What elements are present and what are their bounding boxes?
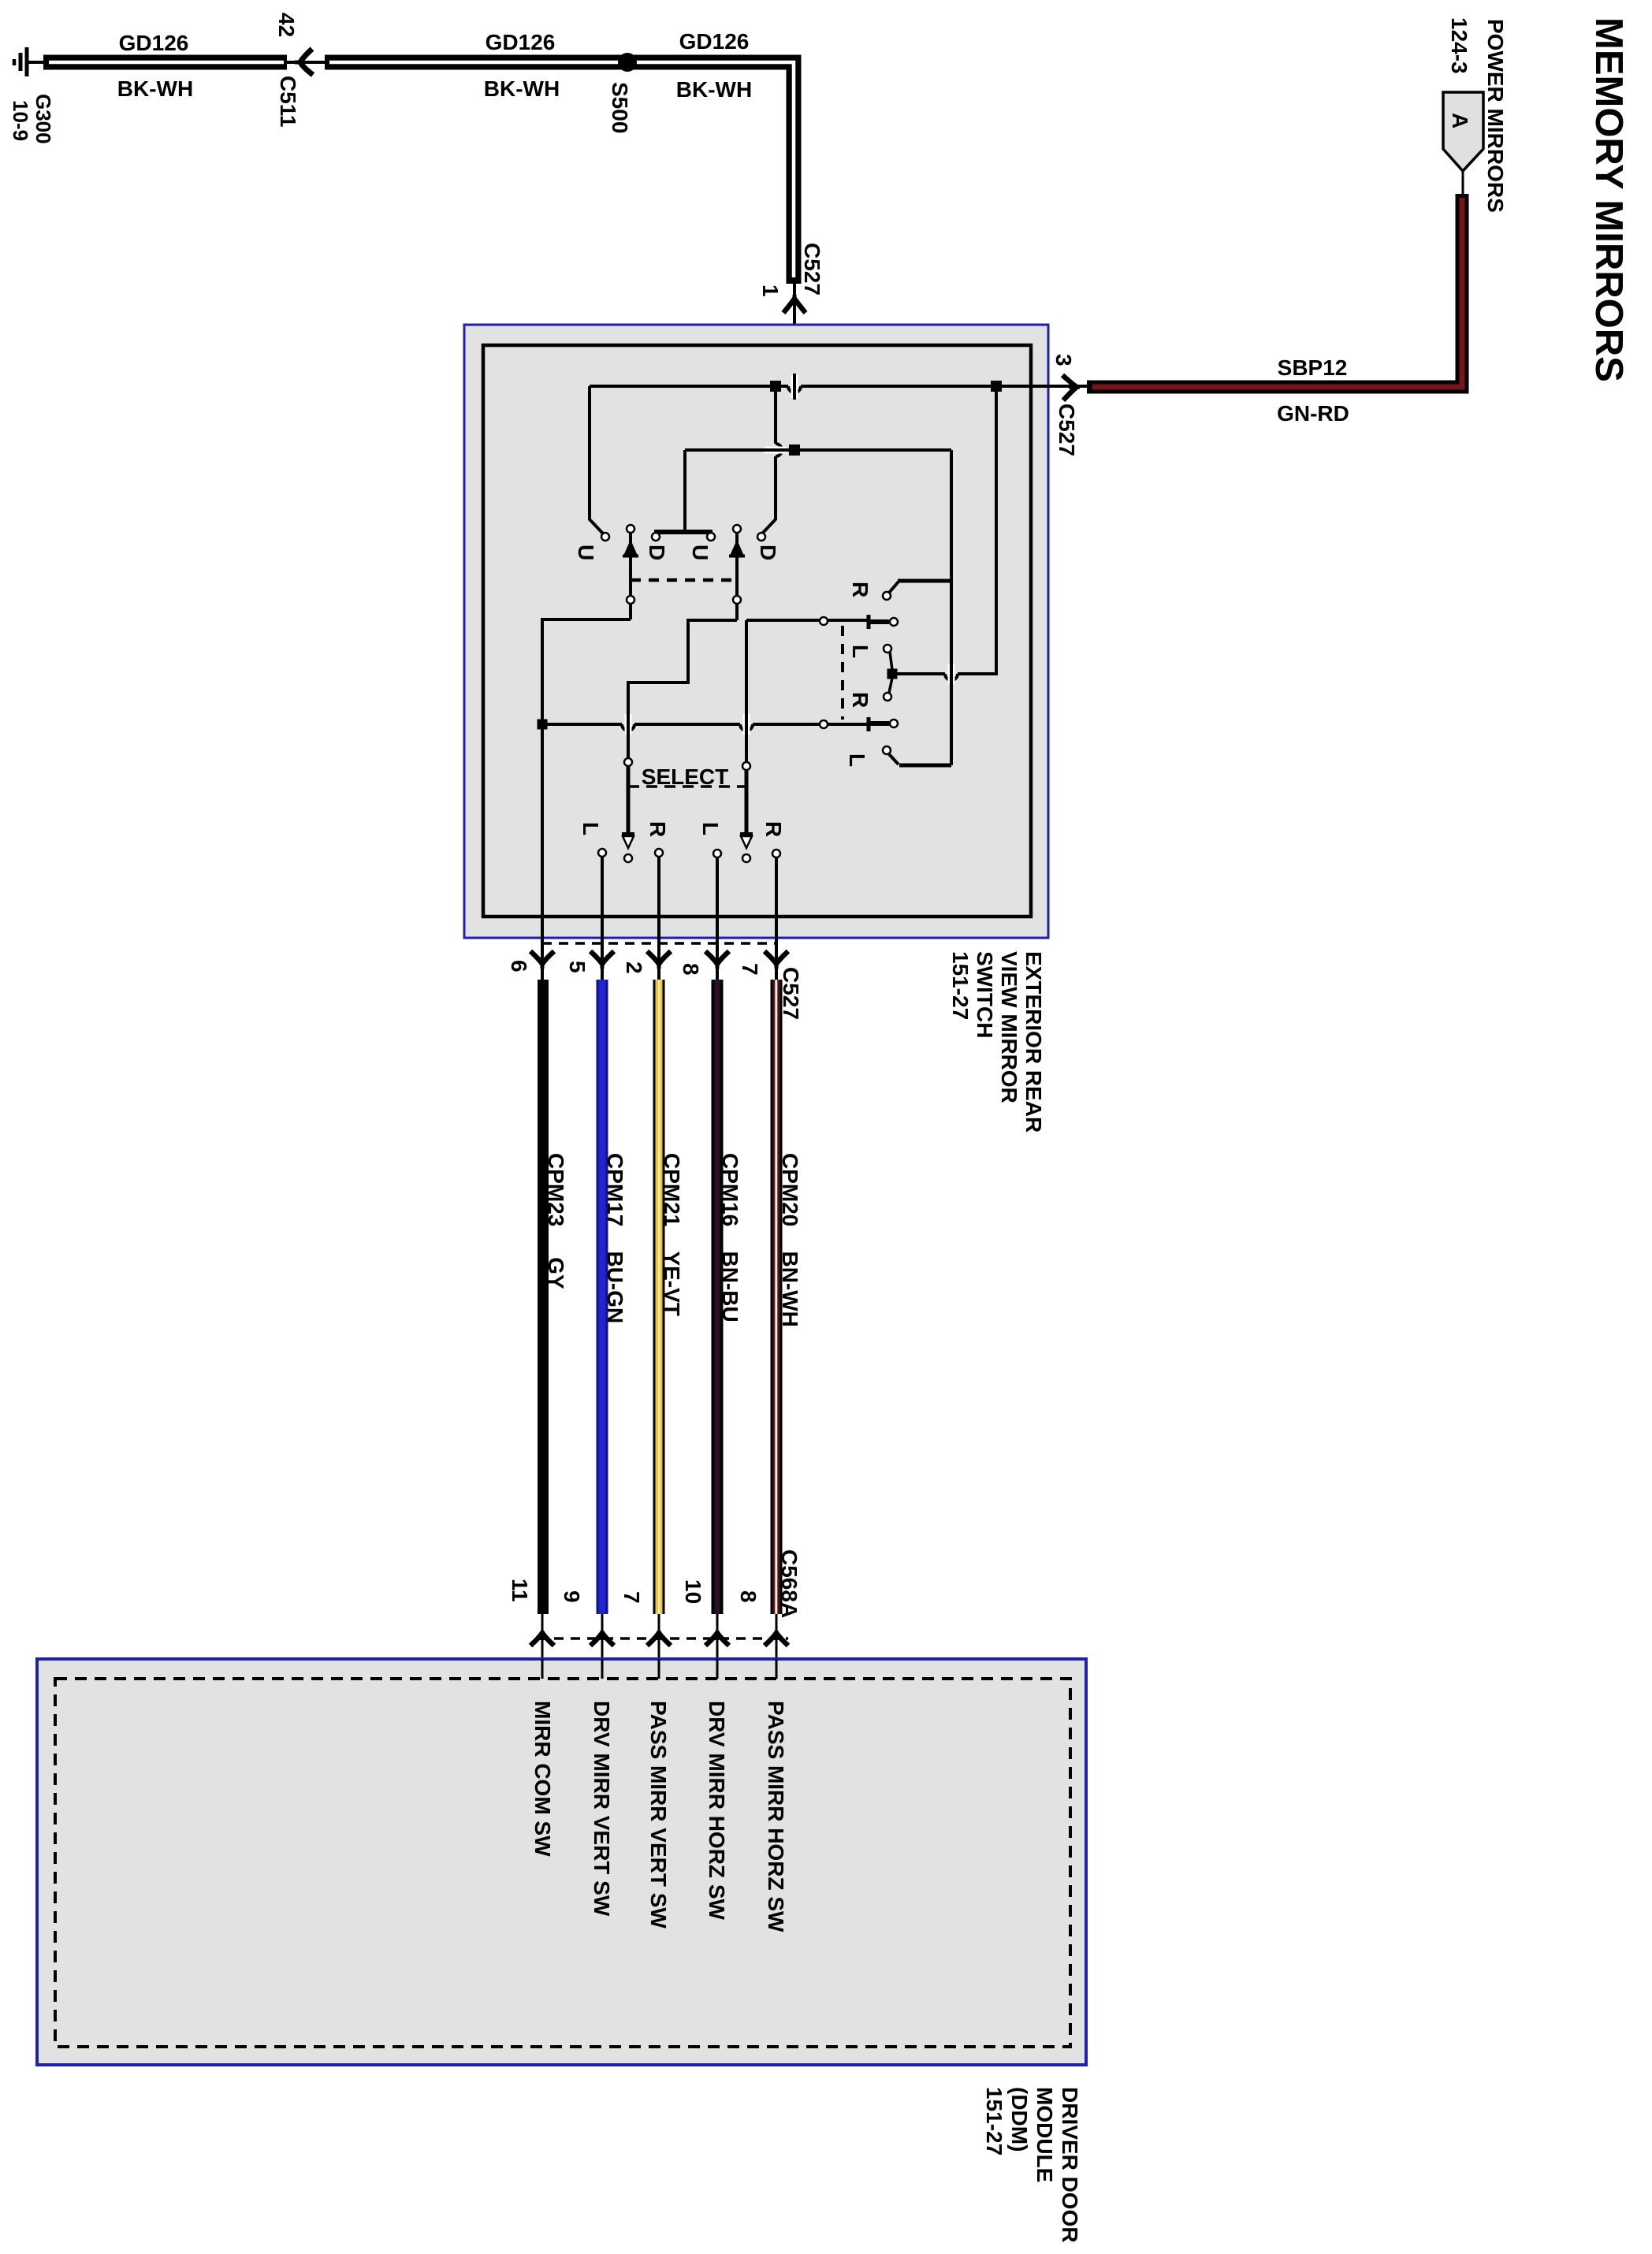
ddm pin 11 arrow	[530, 1631, 554, 1646]
wire CPM17 BU-GN blue	[597, 980, 608, 1614]
svg-text:EXTERIOR REAR: EXTERIOR REAR	[1021, 951, 1046, 1133]
svg-text:C511: C511	[276, 76, 300, 127]
svg-text:151-27: 151-27	[982, 2087, 1006, 2155]
node junction line1-blade2	[770, 381, 781, 392]
svg-text:DRV MIRR HORZ SW: DRV MIRR HORZ SW	[705, 1701, 729, 1920]
svg-text:L: L	[579, 822, 603, 835]
ddm inner dashed border	[55, 1679, 1070, 2047]
svg-text:151-27: 151-27	[948, 951, 973, 1020]
svg-text:DRV MIRR VERT SW: DRV MIRR VERT SW	[590, 1701, 614, 1917]
contact bar sw1	[652, 532, 715, 541]
svg-text:L: L	[845, 753, 869, 767]
ddm pin 7 arrow	[647, 1631, 671, 1646]
svg-text:R: R	[646, 821, 670, 837]
svg-text:GD126: GD126	[486, 30, 556, 54]
svg-text:PASS MIRR HORZ SW: PASS MIRR HORZ SW	[764, 1701, 788, 1932]
ddm pin 9 arrow	[590, 1631, 614, 1646]
svg-text:U: U	[688, 545, 713, 560]
select pole1 contact L	[598, 849, 606, 857]
node junction line1-right column	[991, 381, 1002, 392]
pin 6 arrow	[530, 951, 554, 969]
label EXTERIOR REAR VIEW MIRROR SWITCH 151-27	[948, 951, 1046, 1133]
svg-text:C527: C527	[1055, 404, 1079, 456]
pin 8 arrow	[705, 951, 729, 969]
select pole2 contact R	[772, 850, 780, 857]
svg-text:U: U	[574, 545, 598, 560]
svg-text:VIEW MIRROR: VIEW MIRROR	[997, 951, 1021, 1103]
contact U driver-vert	[601, 533, 609, 541]
svg-text:D: D	[756, 545, 780, 560]
blade L bottom right	[883, 746, 951, 765]
svg-text:DRIVER DOOR: DRIVER DOOR	[1058, 2087, 1082, 2243]
wire select2 R to pin7	[775, 857, 778, 980]
select pole2 contact L	[713, 850, 721, 857]
svg-text:10-9: 10-9	[9, 100, 32, 141]
wire GD126 BK-WH segment 2+3 with corner down to pin 1	[325, 62, 794, 284]
svg-text:CPM16 BN-BU: CPM16 BN-BU	[718, 1153, 742, 1322]
svg-text:8: 8	[679, 963, 703, 976]
svg-text:MEMORY MIRRORS: MEMORY MIRRORS	[1587, 17, 1630, 382]
mechanical link dashed RL	[841, 626, 844, 720]
wire bar sw1 feed from line2	[683, 450, 686, 530]
svg-text:3: 3	[1051, 354, 1076, 366]
svg-text:A: A	[1448, 113, 1472, 128]
svg-text:6: 6	[507, 960, 531, 973]
svg-text:MIRR COM SW: MIRR COM SW	[530, 1701, 555, 1857]
svg-text:BK-WH: BK-WH	[484, 76, 560, 101]
select pole1 contact R	[655, 849, 663, 857]
svg-text:L: L	[848, 645, 873, 658]
svg-text:C527: C527	[779, 967, 803, 1020]
wire CPM21 YE-VT yellow	[653, 980, 665, 1614]
wire select2 to top RL contact y=788	[746, 619, 867, 622]
driver door module box	[37, 1659, 1086, 2065]
label DRIVER DOOR MODULE (DDM) 151-27	[982, 2087, 1082, 2243]
pin 7 arrow	[765, 951, 788, 969]
svg-text:MODULE: MODULE	[1032, 2087, 1057, 2182]
svg-text:CPM17 BU-GN: CPM17 BU-GN	[603, 1153, 627, 1323]
pin 1 connector arrow	[783, 295, 806, 313]
mirror switch inner border	[483, 345, 1031, 917]
wire battery to RL common x=1264 with corner and hop over x=1207	[896, 386, 996, 680]
wire A2 to select pole1	[628, 620, 737, 762]
ddm pin 10 arrow	[705, 1631, 729, 1646]
motor line A1 with up arrow	[623, 525, 638, 619]
mechanical link dashed U/D	[631, 578, 737, 582]
svg-text:SELECT: SELECT	[642, 764, 728, 789]
connector C511 inline arrow	[287, 49, 325, 75]
wire line1 battery feed y=490 with hop over pin1 wire	[590, 386, 1088, 392]
wire pin1 to switch interior	[793, 284, 796, 450]
svg-text:GD126: GD126	[119, 31, 189, 55]
wire right feed column x=1207	[950, 450, 953, 765]
connector C527 dashed group line	[542, 942, 776, 945]
node junction pin6-919	[538, 720, 548, 730]
select pole1	[622, 758, 634, 862]
wire SBP12 GN-RD	[1087, 194, 1462, 387]
pin 5 arrow	[590, 951, 614, 969]
ddm pin 8 arrow	[765, 1631, 788, 1646]
wire select pole2 feed	[745, 620, 748, 762]
svg-text:R: R	[848, 692, 873, 708]
svg-text:42: 42	[274, 13, 299, 37]
svg-text:GD126: GD126	[679, 29, 750, 54]
connector C568A dashed group line	[538, 1637, 788, 1640]
splice S500	[618, 53, 637, 72]
label G300 10-9	[9, 94, 55, 144]
wire GD126 BK-WH segment 1	[43, 55, 287, 70]
svg-text:POWER MIRRORS: POWER MIRRORS	[1483, 19, 1508, 213]
select pole2	[740, 762, 753, 862]
wire blade1 feed from line1 corner	[590, 386, 603, 534]
wire CPM20 BN-WH maroon-white	[771, 980, 783, 1614]
svg-text:L: L	[698, 822, 723, 835]
svg-text:BK-WH: BK-WH	[117, 76, 193, 101]
contact pair top RL	[869, 615, 898, 629]
node junction line2-pin1	[789, 444, 800, 456]
svg-text:1: 1	[758, 285, 783, 297]
svg-text:BK-WH: BK-WH	[676, 77, 752, 102]
pin 3 connector arrow	[1062, 375, 1080, 400]
svg-text:R: R	[761, 821, 786, 837]
svg-text:10: 10	[681, 1579, 705, 1604]
contact pair bottom RL	[869, 717, 898, 731]
node circle on 919 line	[820, 720, 828, 728]
wire select1 R to pin2	[657, 857, 660, 980]
svg-text:7: 7	[738, 963, 762, 976]
wire CPM16 BN-BU dark	[712, 980, 724, 1614]
svg-text:SWITCH: SWITCH	[973, 951, 997, 1038]
fuse POWER MIRRORS connector A	[1443, 92, 1483, 195]
svg-text:R: R	[848, 582, 873, 597]
pin 2 arrow	[647, 951, 671, 969]
ground G300	[14, 47, 44, 76]
svg-text:8: 8	[736, 1590, 761, 1603]
wire CPM23 GY black	[538, 980, 549, 1614]
svg-text:7: 7	[619, 1591, 644, 1604]
svg-text:C568A: C568A	[777, 1549, 802, 1618]
blade R top right	[883, 581, 951, 600]
svg-text:PASS MIRR VERT SW: PASS MIRR VERT SW	[646, 1701, 671, 1929]
wire stubs to DDM	[542, 1614, 776, 1679]
wire blade2 feed from line1 with hop over line2	[762, 386, 782, 534]
svg-text:G300: G300	[32, 94, 55, 144]
svg-text:CPM20 BN-WH: CPM20 BN-WH	[778, 1153, 802, 1327]
svg-text:2: 2	[622, 961, 646, 974]
RL common column contacts	[884, 645, 898, 701]
node circle on 788 line	[820, 617, 828, 625]
svg-text:CPM23 GY: CPM23 GY	[544, 1153, 568, 1289]
svg-text:C527: C527	[800, 243, 824, 296]
svg-text:124-3: 124-3	[1447, 17, 1472, 74]
svg-text:5: 5	[565, 961, 590, 973]
svg-text:(DDM): (DDM)	[1007, 2087, 1032, 2152]
wire common to bottom RL contact y=919 with hops over select poles	[542, 724, 867, 731]
svg-text:CPM21 YE-VT: CPM21 YE-VT	[660, 1153, 684, 1316]
contact D passenger-vert	[757, 533, 765, 541]
mirror switch outer box	[464, 325, 1048, 938]
wire crossing halos	[628, 374, 951, 736]
wire line2 ground feed y=571	[685, 448, 951, 452]
ddm stub wires	[542, 1659, 776, 1679]
wire select1 L to pin5	[601, 857, 604, 980]
wire select2 L to pin8	[716, 857, 719, 980]
svg-text:SBP12: SBP12	[1278, 355, 1348, 380]
motor line A2 with up arrow	[729, 525, 745, 620]
mechanical link dashed SELECT	[628, 785, 746, 788]
svg-text:D: D	[645, 545, 669, 560]
svg-text:11: 11	[508, 1579, 532, 1602]
svg-text:S500: S500	[608, 82, 632, 133]
svg-text:9: 9	[560, 1590, 584, 1603]
wire A1 to pin6 column	[542, 619, 631, 980]
svg-text:GN-RD: GN-RD	[1277, 401, 1349, 426]
